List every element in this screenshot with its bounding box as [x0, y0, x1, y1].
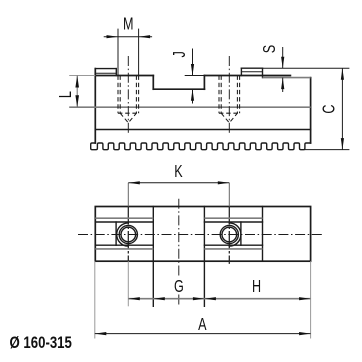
dimension K: [128, 162, 229, 206]
notch bottom: [153, 88, 204, 90]
dimension A: [95, 261, 311, 338]
hole 1 vertical center line: [127, 207, 129, 262]
svg-text:S: S: [260, 45, 280, 53]
top surface left section: [95, 75, 153, 77]
tab 2 inner line: [241, 71, 262, 73]
body left edge: [94, 69, 96, 143]
serration bottom extension to C dim: [304, 149, 349, 151]
surface extension line to left for L dim: [69, 75, 95, 77]
dimension J: [170, 49, 204, 104]
tab 1 top: [95, 68, 116, 70]
svg-text:G: G: [174, 277, 184, 297]
svg-text:C: C: [320, 105, 340, 114]
screw hole 1 circles: [121, 227, 136, 242]
grey guideway line across body with left extension: [69, 106, 310, 108]
body right edge: [310, 78, 312, 143]
hole 2 center line: [228, 56, 230, 134]
hole 2 vertical center line: [228, 207, 230, 264]
tapped hole 1 hidden outline: [118, 76, 139, 123]
tab 2 right edge: [262, 68, 264, 77]
tab 2 top with extension to C dim: [241, 67, 262, 69]
screw hole 2 circles: [222, 227, 237, 242]
inner vertical edge at notch right: [203, 207, 205, 262]
svg-text:K: K: [174, 162, 183, 182]
notch left wall: [152, 76, 154, 90]
plan body outline: [95, 207, 310, 262]
hole 1 center line: [127, 56, 129, 134]
guideway rails middle section: [204, 218, 262, 249]
svg-text:A: A: [198, 315, 207, 335]
dimension M: [104, 14, 152, 75]
grey surface line right section: [263, 77, 311, 79]
guideway rails left section: [95, 218, 153, 249]
tab 1 right edge: [115, 69, 117, 76]
inner vertical edge at notch left: [152, 207, 154, 262]
svg-text:Ø 160-315: Ø 160-315: [10, 334, 72, 353]
vertical center line of plan view: [178, 199, 180, 276]
notch right wall: [203, 76, 205, 90]
dimensions G and H: [128, 261, 310, 338]
svg-text:H: H: [252, 277, 261, 297]
tab 2 left edge: [240, 68, 242, 75]
inner vertical edge at tab2 right: [262, 207, 264, 262]
pocket 2 edge: [240, 222, 242, 245]
tapped hole 2 hidden outline: [219, 76, 240, 123]
serration band top line: [95, 129, 310, 131]
tab 1 inner line: [95, 72, 116, 74]
svg-text:J: J: [170, 51, 190, 57]
serration teeth: [91, 143, 311, 150]
horizontal center line: [78, 234, 323, 236]
pocket 1 edge: [115, 222, 117, 245]
svg-text:M: M: [123, 14, 133, 34]
dimension S: [260, 45, 284, 92]
dimension C: [320, 68, 344, 149]
svg-text:L: L: [56, 91, 76, 98]
top surface right section: [204, 75, 290, 77]
dimension L: [56, 76, 79, 108]
